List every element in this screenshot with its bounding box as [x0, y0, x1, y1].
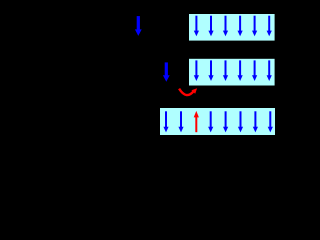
- box1 spin arrow 6 (blue down): [267, 16, 272, 37]
- box2 spin arrow 3 (blue down): [223, 60, 228, 81]
- box2 spin arrow 4 (blue down): [238, 60, 243, 81]
- box1 spin arrow 2 (blue down): [208, 16, 213, 37]
- box3 spin arrow 1 (blue down): [163, 111, 168, 132]
- spin domain box 1 (top): [189, 14, 275, 41]
- box1 spin arrow 5 (blue down): [252, 16, 257, 37]
- box3 spin arrow 7 (blue down): [253, 111, 258, 132]
- box1 spin arrow 1 (blue down): [194, 16, 199, 37]
- box2 spin arrow 6 (blue down): [267, 60, 272, 81]
- lone spin arrow B (blue down, left of box 2): [163, 62, 170, 81]
- spin domain box 2 (middle): [189, 59, 275, 86]
- spin domain box 3 (bottom): [160, 108, 275, 135]
- box2 spin arrow 5 (blue down): [252, 60, 257, 81]
- box3 spin arrow 8 (blue down): [268, 111, 273, 132]
- box3 spin arrow 2 (blue down): [178, 111, 183, 132]
- box3 spin arrow 6 (blue down): [238, 111, 243, 132]
- lone spin arrow A (blue down, left of box 1): [135, 16, 142, 36]
- box3 spin arrow 5 (blue down): [223, 111, 228, 132]
- box1 spin arrow 3 (blue down): [223, 16, 228, 37]
- box1 spin arrow 4 (blue down): [238, 16, 243, 37]
- box3 spin arrow 4 (blue down): [208, 111, 213, 132]
- box2 spin arrow 1 (blue down): [194, 60, 199, 81]
- box3 flipped spin arrow 3 (red up): [194, 111, 199, 132]
- red curved flip arrow: [179, 88, 197, 95]
- box2 spin arrow 2 (blue down): [208, 60, 213, 81]
